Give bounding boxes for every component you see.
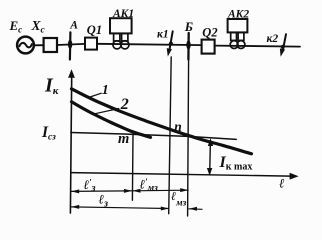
dimension l'z row1: [71, 189, 132, 194]
node m vertical: [131, 135, 134, 201]
callout for curve 2: [92, 109, 119, 115]
current transformer TA1: [113, 33, 129, 49]
dimension lmz outside arrow: [189, 207, 202, 211]
svg-text:к1: к1: [157, 29, 169, 41]
generator G (system source): [17, 37, 34, 54]
relay AK1 box: [110, 18, 132, 33]
wire: generator to reactance box: [34, 44, 44, 46]
wire: Q2 to line end through CT2 and k2: [215, 46, 300, 47]
svg-text:AK1: AK1: [112, 8, 134, 20]
svg-text:Q2: Q2: [202, 26, 217, 40]
svg-text:n: n: [174, 119, 182, 134]
bus B: [186, 33, 190, 60]
svg-text:ℓ: ℓ: [279, 176, 285, 191]
Icz level line: [71, 133, 236, 140]
breaker Q1: [85, 38, 97, 50]
k1 construction vertical to axis: [169, 57, 172, 214]
curve 2 (Ik vs l, min mode): [72, 102, 151, 138]
relay AK2 box: [228, 19, 248, 32]
breaker Q2: [202, 40, 215, 54]
svg-text:m: m: [118, 131, 129, 147]
callout for curve 1: [89, 93, 102, 97]
svg-text:2: 2: [120, 96, 129, 113]
fault arrow k2: [280, 34, 286, 57]
bus A: [68, 32, 72, 59]
dimension l'mz row1: [133, 188, 189, 193]
svg-text:к2: к2: [267, 33, 279, 45]
svg-text:Б: Б: [184, 19, 193, 34]
dimension lz row2: [71, 205, 169, 211]
svg-text:AK2: AK2: [227, 8, 249, 20]
bus B construction vertical to graph: [188, 60, 189, 217]
Ik max dimension arrow: [207, 138, 213, 176]
fault arrow k1: [167, 31, 173, 56]
x-axis (length axis): [71, 173, 299, 180]
svg-text:A: A: [69, 20, 78, 32]
svg-text:1: 1: [102, 83, 109, 98]
wire: box to breaker Q1 through bus A: [57, 44, 85, 45]
svg-text:Q1: Q1: [87, 23, 102, 37]
wire: Q1 to Q2 through CT1, k1, bus B: [97, 44, 202, 45]
curve 1 (Ik vs l, max mode): [72, 89, 252, 154]
current transformer TA2: [230, 32, 245, 48]
system reactance box: [44, 38, 57, 52]
y-axis (current axis): [68, 69, 75, 213]
